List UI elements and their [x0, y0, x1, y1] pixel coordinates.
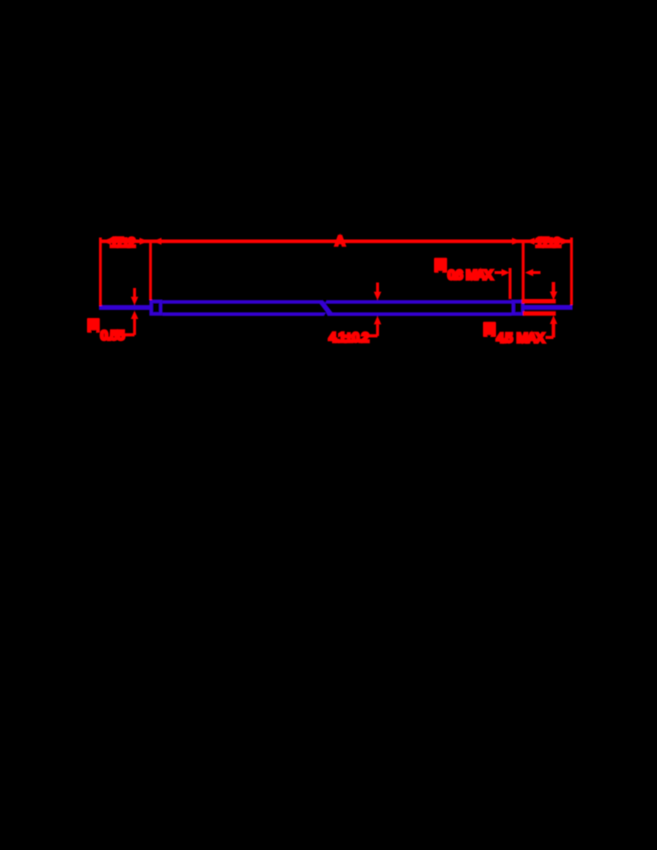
leader to body dia label	[368, 334, 378, 337]
leader to lead dia label	[122, 333, 135, 336]
body break mark (diagonal)	[318, 300, 334, 316]
right end cap of component body	[512, 300, 525, 316]
extension line far left	[99, 238, 102, 307]
svg-text:17±2: 17±2	[535, 234, 561, 250]
main dimension line	[99, 240, 572, 244]
arrowhead left 17 dim pointing right	[140, 238, 149, 245]
svg-text:0.55: 0.55	[100, 327, 125, 343]
label Ø0.6 MAX (diameter symbol)	[434, 258, 494, 283]
cap bottom extension bar	[523, 311, 556, 315]
arrowhead A dim pointing left	[153, 238, 162, 245]
lead dia dim lower arrow pointing up	[131, 311, 139, 335]
left end cap of component body	[149, 300, 162, 316]
wire: right lead of component	[525, 305, 573, 310]
svg-text:4.1±0.2: 4.1±0.2	[329, 329, 370, 345]
extension line left of cap-length dim	[509, 268, 512, 299]
svg-text:17±2: 17±2	[110, 234, 136, 250]
arrowhead right 17 dim pointing left	[526, 238, 535, 245]
cap dia dim upper arrow pointing down	[550, 282, 558, 300]
arrowhead left 17 dim pointing left	[102, 238, 111, 245]
body dia dim upper arrow pointing down	[374, 283, 382, 301]
label Ø4.5 MAX (diameter symbol)	[483, 322, 546, 346]
svg-text:0.6 MAX: 0.6 MAX	[448, 266, 494, 282]
arrowhead right 17 dim pointing right	[561, 238, 570, 245]
svg-text:4.5 MAX: 4.5 MAX	[496, 330, 545, 346]
label Ø0.55 (diameter symbol)	[87, 318, 125, 343]
body dia dim lower arrow pointing up	[374, 316, 382, 336]
cap top extension bar	[523, 299, 556, 303]
component body top edge	[162, 300, 511, 304]
svg-text:A: A	[335, 233, 345, 249]
extension line far right	[570, 238, 573, 306]
extension line at right cap	[522, 240, 525, 304]
cap-length dim arrow pointing right	[495, 269, 510, 276]
extension line at left cap	[149, 240, 152, 301]
arrowhead A dim pointing right	[512, 238, 521, 245]
cap dia dim lower arrow pointing up	[550, 315, 558, 337]
wire: left lead of component	[99, 305, 151, 310]
cap-length dim arrow pointing left	[525, 269, 541, 276]
leader to cap dia label	[546, 336, 554, 339]
component body bottom edge	[162, 312, 511, 316]
lead dia dim upper arrow pointing down	[131, 288, 139, 305]
